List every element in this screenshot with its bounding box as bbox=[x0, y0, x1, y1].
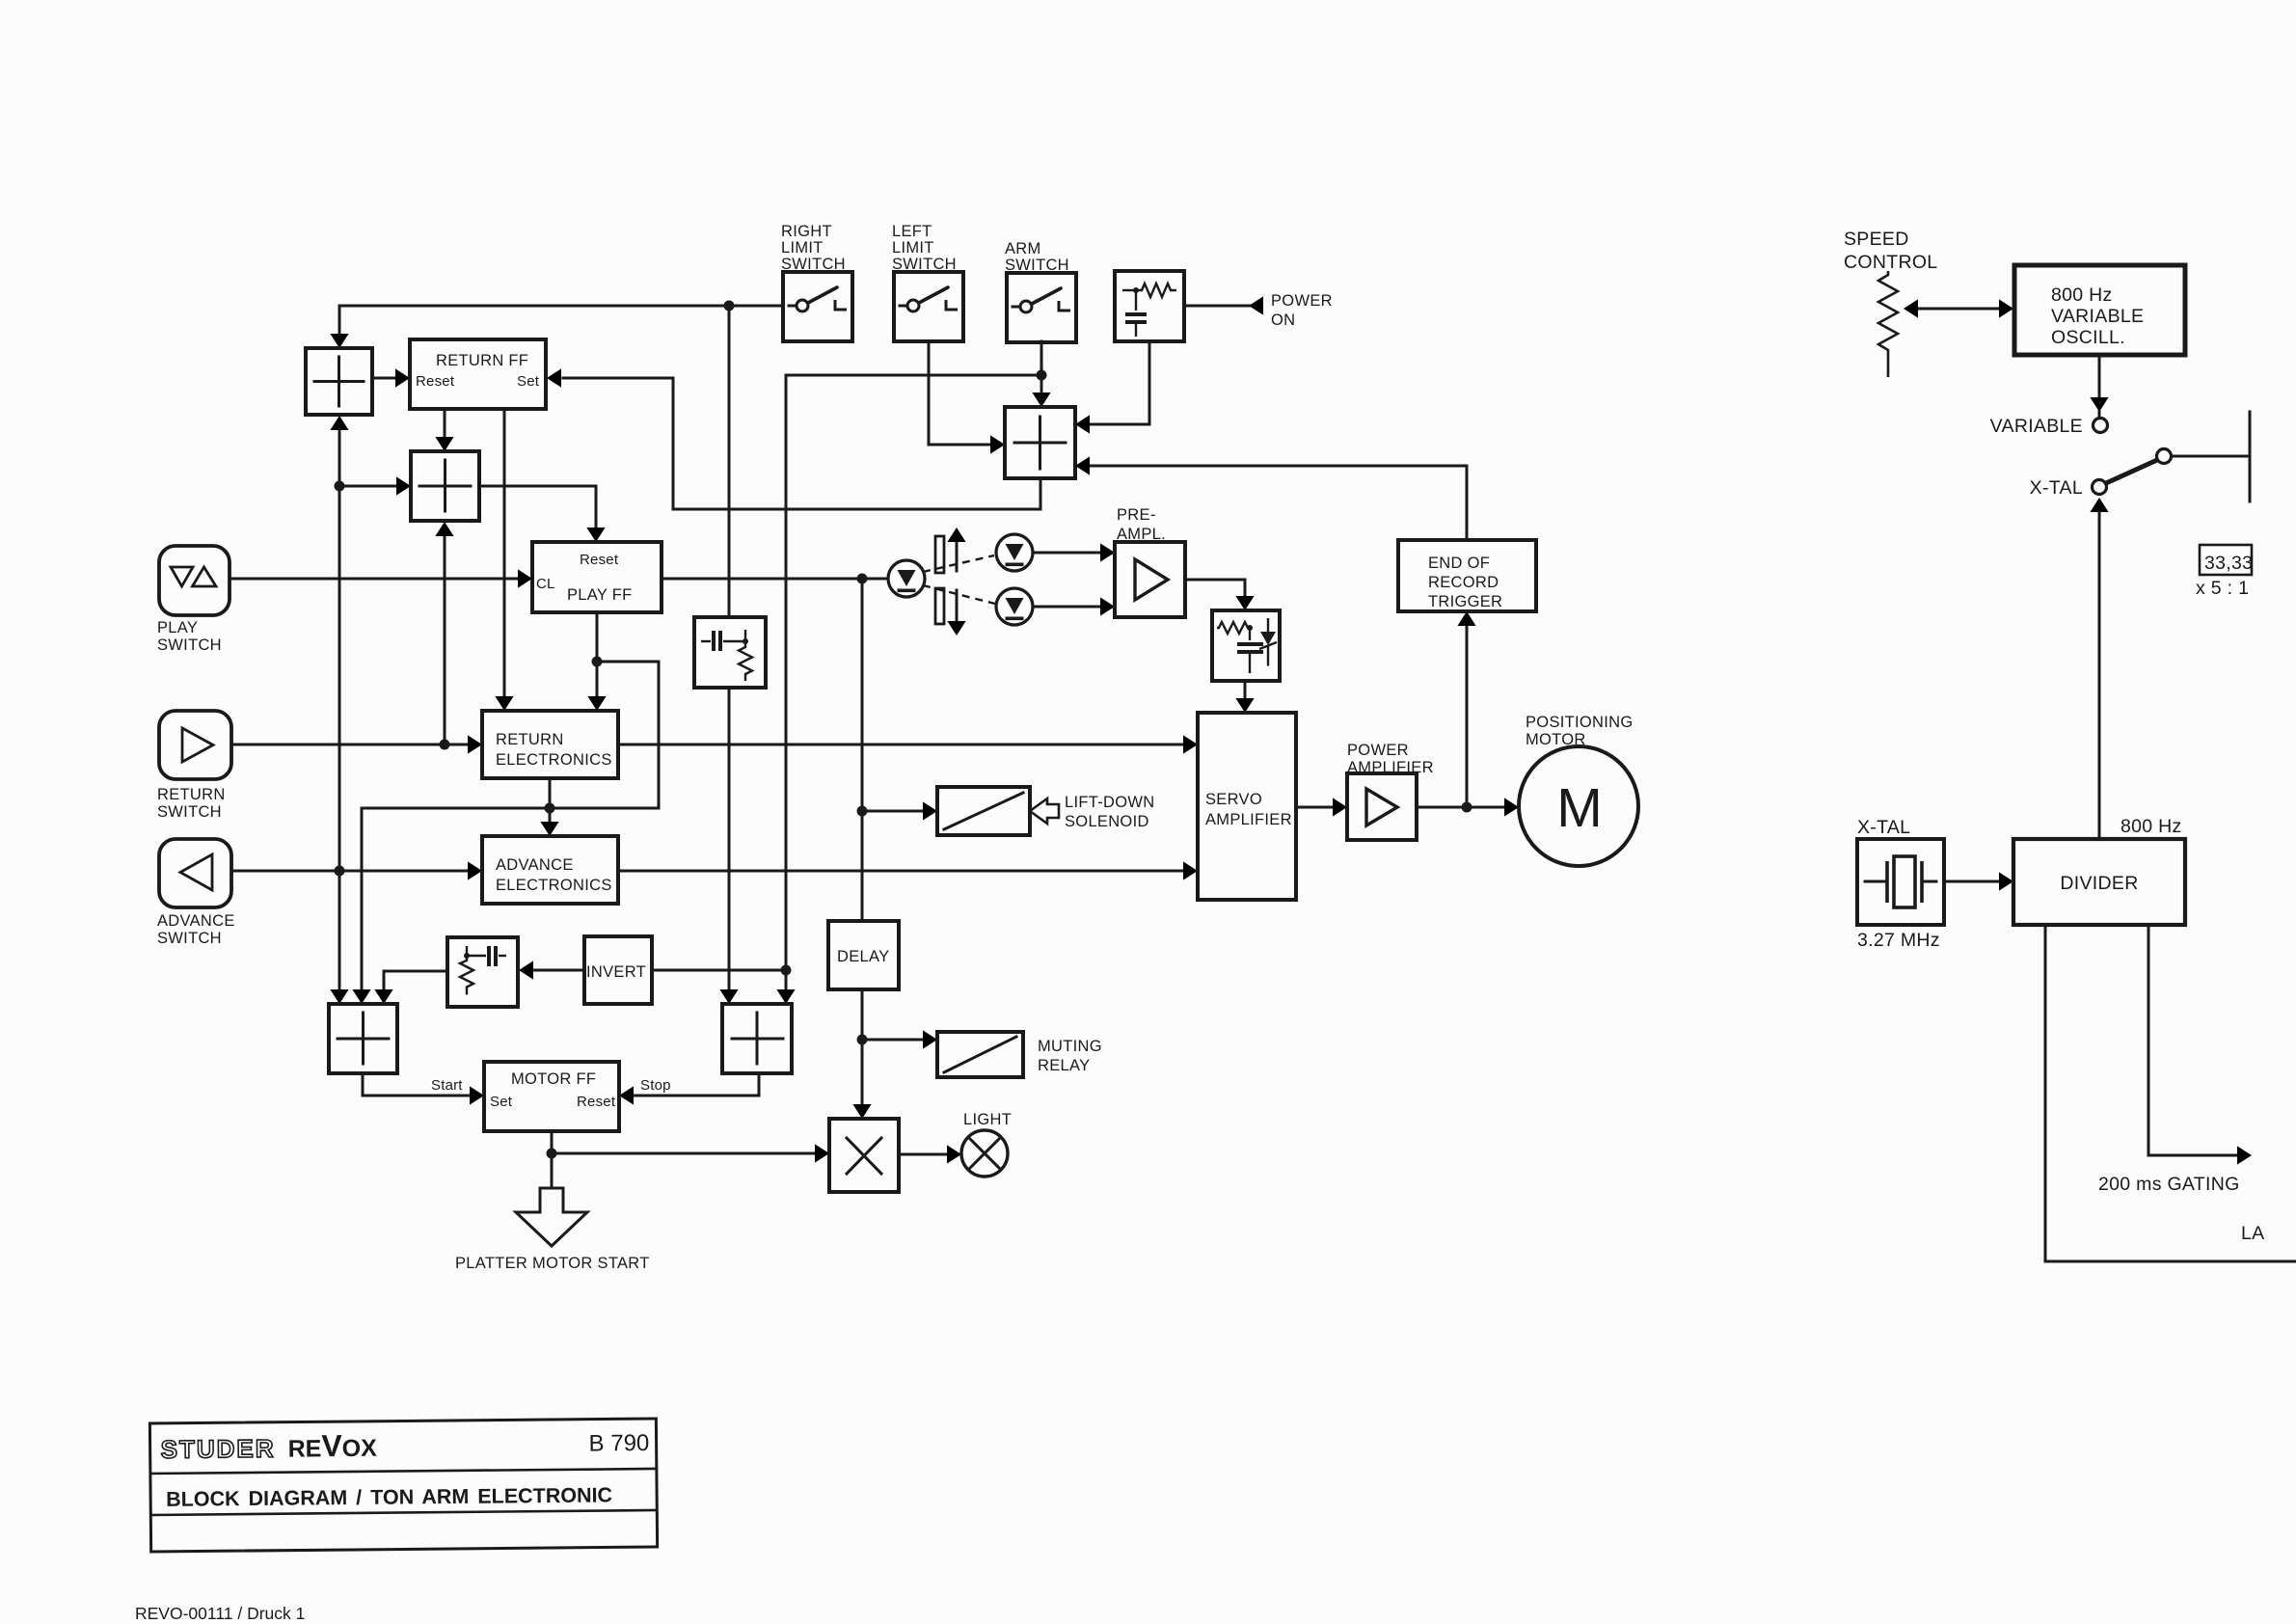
wire: RETURN FF bottom output to sum S2 bbox=[444, 409, 446, 436]
wire: end-of-record feedback into S3 lower right input bbox=[1091, 466, 1467, 540]
wire: ADVANCE SWITCH to ADVANCE ELECTRONICS bbox=[231, 870, 467, 873]
svg-text:ADVANCE: ADVANCE bbox=[496, 856, 574, 874]
dashed light beam lower bbox=[923, 585, 995, 604]
photodiode upper bbox=[996, 534, 1033, 571]
svg-text:Stop: Stop bbox=[640, 1077, 671, 1094]
svg-text:INVERT: INVERT bbox=[586, 963, 646, 981]
wire: S1 to RETURN FF Reset bbox=[372, 377, 394, 380]
pushbutton PLAY SWITCH bbox=[159, 546, 230, 615]
junction node at (619,686) bbox=[592, 657, 603, 667]
svg-text:LIFT-DOWN: LIFT-DOWN bbox=[1065, 794, 1154, 811]
switch lever bbox=[2106, 460, 2157, 483]
summing node S5 bbox=[329, 1004, 397, 1073]
wire: multiplier output to LIGHT bbox=[899, 1153, 946, 1156]
wire: upper photodiode to PRE-AMPL bbox=[1033, 552, 1099, 555]
potentiometer SPEED CONTROL bbox=[1878, 271, 1898, 377]
speed box 33,33 bbox=[2200, 545, 2252, 575]
svg-text:REVO-00111 / Druck 1: REVO-00111 / Druck 1 bbox=[135, 1604, 305, 1623]
svg-text:Reset: Reset bbox=[580, 552, 619, 568]
svg-text:LIMIT: LIMIT bbox=[781, 239, 824, 257]
svg-text:SWITCH: SWITCH bbox=[157, 636, 222, 654]
block END OF RECORD TRIGGER bbox=[1398, 540, 1536, 611]
LED light source bbox=[888, 560, 925, 597]
svg-text:X-TAL: X-TAL bbox=[1857, 817, 1910, 838]
zener RC block bbox=[1212, 610, 1280, 681]
wire: net x=894 down from LED node to solenoid tap bbox=[861, 579, 864, 811]
hollow arrow PLATTER MOTOR START bbox=[516, 1188, 587, 1246]
wire: vertical net x=756 from RC block down to sum S4 bbox=[728, 688, 731, 989]
arrow down beside slits bbox=[956, 590, 959, 621]
wire: crystal to DIVIDER bbox=[1944, 880, 1998, 883]
svg-text:ON: ON bbox=[1271, 311, 1295, 329]
summing node S2 bbox=[411, 451, 479, 521]
title block bbox=[149, 1419, 657, 1552]
multiplier block bbox=[829, 1119, 899, 1192]
aperture slit upper bbox=[935, 536, 944, 573]
wire: net x=352 from (352,504) down to advance tap bbox=[338, 486, 341, 871]
wire: RETURN ELECTRONICS bottom to node (570,838) bbox=[549, 778, 552, 808]
junction node at (572,1196) bbox=[547, 1149, 557, 1159]
wire: down to platter motor start arrow bbox=[551, 1153, 554, 1188]
wire: S5 output Start to MOTOR FF Set bbox=[363, 1073, 469, 1096]
svg-text:Set: Set bbox=[490, 1094, 513, 1110]
summing node S3 bbox=[1005, 407, 1075, 478]
svg-text:X-TAL: X-TAL bbox=[2030, 477, 2083, 499]
block INVERT bbox=[584, 936, 652, 1004]
wire: S2 left input from net x=352 bbox=[339, 485, 395, 488]
svg-text:RETURN: RETURN bbox=[157, 786, 226, 803]
svg-text:SWITCH: SWITCH bbox=[157, 930, 222, 947]
svg-text:PLAY: PLAY bbox=[157, 619, 198, 636]
svg-text:3.27 MHz: 3.27 MHz bbox=[1857, 930, 1940, 951]
flip-flop RETURN FF bbox=[410, 339, 546, 409]
flip-flop MOTOR FF bbox=[484, 1062, 619, 1131]
svg-text:STUDER: STUDER bbox=[161, 1434, 276, 1464]
RC block power-on filter bbox=[1115, 271, 1184, 341]
block SERVO AMPLIFIER bbox=[1198, 713, 1296, 900]
wire: vertical net x=756 down to inline RC block bbox=[728, 306, 731, 618]
solenoid LIFT-DOWN SOLENOID bbox=[937, 787, 1030, 835]
svg-text:Reset: Reset bbox=[577, 1094, 616, 1110]
svg-text:ELECTRONICS: ELECTRONICS bbox=[496, 751, 612, 769]
wire: solenoid feed bbox=[862, 810, 922, 813]
wire: Set input from arm sum S3 output bbox=[563, 378, 1040, 509]
wire: right-limit bus y=317 bbox=[339, 306, 783, 333]
svg-text:MUTING: MUTING bbox=[1038, 1038, 1102, 1055]
svg-text:M: M bbox=[1556, 777, 1602, 839]
arrow up beside slits bbox=[956, 540, 959, 571]
svg-text:LEFT: LEFT bbox=[892, 223, 932, 240]
wire: MOTOR FF output down bbox=[551, 1131, 554, 1153]
wire: arm node left and down net x=815 to sum S4 bbox=[786, 375, 1041, 989]
wire: arrow from node into RETURN ELECTRONICS top bbox=[596, 662, 599, 696]
junction node at (461,772) bbox=[440, 740, 450, 750]
svg-text:POSITIONING: POSITIONING bbox=[1526, 714, 1633, 731]
pushbutton RETURN SWITCH bbox=[159, 711, 231, 779]
wire: feedback up into END OF RECORD TRIGGER bbox=[1466, 626, 1469, 807]
svg-text:800 Hz: 800 Hz bbox=[2120, 816, 2182, 837]
wire: contact to T stub bbox=[2172, 455, 2250, 458]
junction node at (1080,389) bbox=[1037, 370, 1047, 381]
wire: PLAY FF output to LED node bbox=[662, 578, 888, 581]
junction node at (570,838) bbox=[545, 803, 555, 814]
wire: net x=352 down into sum S5 bbox=[338, 871, 341, 989]
oscillator 800 Hz VARIABLE OSCILL. bbox=[2014, 265, 2185, 355]
wire: POWER AMPLIFIER to motor bbox=[1417, 806, 1503, 809]
svg-text:DELAY: DELAY bbox=[837, 948, 889, 965]
wire: RETURN FF bottom output to RETURN ELECTRONICS bbox=[503, 409, 506, 696]
wire: PRE-AMPL output to zener RC block bbox=[1185, 580, 1245, 596]
block RETURN ELECTRONICS bbox=[482, 711, 618, 778]
svg-text:Start: Start bbox=[431, 1077, 463, 1094]
wire: net x=894 down to DELAY bbox=[861, 811, 864, 921]
junction node at (352,903) on advance wire bbox=[335, 866, 345, 877]
wire: y=838 bus down into sum S5 middle input bbox=[361, 808, 364, 989]
wire: arm node down into sum S3 top bbox=[1040, 375, 1043, 392]
junction node at (894,841) bbox=[857, 806, 868, 817]
svg-text:LA: LA bbox=[2241, 1223, 2264, 1244]
summing node S4 bbox=[722, 1004, 792, 1073]
svg-text:VARIABLE: VARIABLE bbox=[2051, 306, 2144, 327]
wire: lower photodiode to PRE-AMPL bbox=[1033, 606, 1099, 609]
wire: INVERT output to RC differentiator bbox=[532, 969, 584, 972]
junction node at (352,504) bbox=[335, 481, 345, 492]
summing node S1 bbox=[306, 348, 372, 415]
svg-text:SPEED: SPEED bbox=[1844, 229, 1909, 250]
wire: S4 output Stop to MOTOR FF Reset bbox=[635, 1073, 759, 1096]
wire: SERVO to POWER AMPLIFIER bbox=[1296, 806, 1332, 809]
svg-text:33,33: 33,33 bbox=[2204, 553, 2253, 574]
svg-text:LIGHT: LIGHT bbox=[963, 1111, 1012, 1128]
wire: node (619,686) over to x=683 and down to y=838 bus bbox=[362, 662, 659, 808]
svg-text:B 790: B 790 bbox=[588, 1430, 649, 1457]
relay MUTING RELAY bbox=[937, 1032, 1023, 1077]
wire: LEFT LIMIT SWITCH to sum S3 left input bbox=[929, 341, 989, 445]
wire: S1 bottom input rising from net x=352 bbox=[338, 430, 341, 486]
svg-text:POWER: POWER bbox=[1347, 742, 1409, 759]
wire: DELAY output down bbox=[861, 989, 864, 1040]
wire: X-TAL terminal fed from divider 800 Hz bbox=[2098, 542, 2101, 839]
flip-flop PLAY FF bbox=[532, 542, 662, 612]
block DELAY bbox=[828, 921, 899, 989]
svg-text:PLATTER MOTOR START: PLATTER MOTOR START bbox=[455, 1255, 650, 1272]
wire: ARM SWITCH output down to node bbox=[1040, 341, 1043, 375]
wire: ADVANCE ELECTRONICS output to SERVO AMPLIFIER bbox=[618, 870, 1182, 873]
svg-text:END OF: END OF bbox=[1428, 555, 1490, 572]
svg-text:ARM: ARM bbox=[1005, 240, 1041, 257]
wire: oscillator output down to VARIABLE terminal bbox=[2098, 355, 2101, 397]
svg-text:AMPLIFIER: AMPLIFIER bbox=[1205, 811, 1292, 828]
wire: divider output to lamp line bbox=[2045, 925, 2296, 1261]
svg-text:RECORD: RECORD bbox=[1428, 574, 1499, 591]
wire: RETURN ELECTRONICS output to SERVO AMPLIFIER bbox=[618, 744, 1182, 746]
svg-text:CL: CL bbox=[536, 576, 555, 592]
wire: node down into ADVANCE ELECTRONICS top bbox=[549, 808, 552, 822]
wire: arrow into sum S1 top bbox=[330, 334, 348, 348]
block ADVANCE ELECTRONICS bbox=[482, 836, 618, 904]
aperture slit lower bbox=[935, 588, 944, 624]
svg-text:PLAY FF: PLAY FF bbox=[567, 586, 633, 604]
dashed light beam upper bbox=[923, 555, 994, 572]
wire: POWER ON input line bbox=[1184, 305, 1250, 308]
svg-text:OSCILL.: OSCILL. bbox=[2051, 327, 2125, 348]
inline RC block on net x=756 bbox=[694, 617, 766, 688]
svg-text:POWER: POWER bbox=[1271, 292, 1333, 310]
svg-text:ADVANCE: ADVANCE bbox=[157, 912, 235, 930]
junction node at (756,317) bbox=[724, 301, 735, 311]
photodiode lower bbox=[996, 588, 1033, 625]
wire: PLAY FF bottom output bbox=[596, 612, 599, 662]
wire: return wire tap up into S2 bottom bbox=[444, 536, 446, 744]
wire: RETURN SWITCH to RETURN ELECTRONICS bbox=[231, 744, 467, 746]
svg-text:800 Hz: 800 Hz bbox=[2051, 284, 2113, 306]
junction node at (1521,837) bbox=[1462, 802, 1472, 813]
wire: RC differentiator output to sum S5 right input bbox=[384, 971, 447, 989]
wire: INVERT input from net x=815 bbox=[652, 969, 786, 972]
junction node at (894,1078) bbox=[857, 1035, 868, 1045]
svg-text:SERVO: SERVO bbox=[1205, 791, 1262, 808]
svg-text:RIGHT: RIGHT bbox=[781, 223, 832, 240]
block DIVIDER bbox=[2013, 839, 2185, 925]
wire: node down into multiplier bbox=[861, 1040, 864, 1104]
wire: RC block output down and into S3 upper right input bbox=[1091, 341, 1149, 424]
svg-text:SWITCH: SWITCH bbox=[157, 803, 222, 821]
svg-text:RETURN: RETURN bbox=[496, 731, 564, 748]
svg-text:CONTROL: CONTROL bbox=[1844, 252, 1937, 273]
svg-text:DIVIDER: DIVIDER bbox=[2060, 873, 2138, 894]
switch contact circle bbox=[2157, 449, 2172, 464]
svg-text:ELECTRONICS: ELECTRONICS bbox=[496, 877, 612, 894]
wire: zener block to SERVO AMPLIFIER bbox=[1244, 681, 1247, 698]
svg-text:RELAY: RELAY bbox=[1038, 1057, 1090, 1074]
svg-text:LIMIT: LIMIT bbox=[892, 239, 934, 257]
pushbutton ADVANCE SWITCH bbox=[159, 839, 231, 907]
wire: to MUTING RELAY bbox=[862, 1039, 922, 1042]
junction node at (816,1006) invert tap bbox=[781, 965, 792, 976]
svg-text:PRE-: PRE- bbox=[1117, 506, 1156, 524]
junction node at (894,600) bbox=[857, 574, 868, 584]
svg-text:RETURN FF: RETURN FF bbox=[436, 352, 528, 369]
RC differentiator block bbox=[447, 937, 518, 1007]
wire: PLAY SWITCH to PLAY FF CL bbox=[230, 578, 517, 581]
wire: S2 output to PLAY FF Reset bbox=[479, 486, 596, 528]
wire: to multiplier left input bbox=[552, 1152, 814, 1155]
wire: double arrow pot to oscillator bbox=[1919, 308, 1998, 311]
svg-text:Reset: Reset bbox=[416, 373, 455, 390]
svg-text:x 5 : 1: x 5 : 1 bbox=[2196, 578, 2249, 599]
svg-text:VARIABLE: VARIABLE bbox=[1990, 416, 2083, 437]
wire: divider output 200 ms gating bbox=[2148, 925, 2236, 1155]
svg-text:BLOCK DIAGRAM / TON ARM ELECTR: BLOCK DIAGRAM / TON ARM ELECTRONIC bbox=[166, 1483, 612, 1510]
svg-text:SOLENOID: SOLENOID bbox=[1065, 813, 1149, 830]
svg-text:TRIGGER: TRIGGER bbox=[1428, 593, 1502, 610]
svg-text:Set: Set bbox=[517, 373, 540, 390]
svg-text:200 ms GATING: 200 ms GATING bbox=[2098, 1174, 2240, 1195]
svg-text:MOTOR FF: MOTOR FF bbox=[511, 1070, 596, 1088]
